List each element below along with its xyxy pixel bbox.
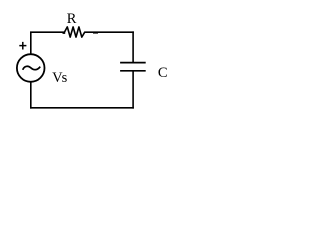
svg-text:Vs: Vs <box>52 70 68 86</box>
wire top right segment (resistor to top-right corner) <box>85 31 134 33</box>
resistor R <box>64 27 84 37</box>
capacitor C top plate <box>120 62 146 64</box>
svg-text:C: C <box>158 65 168 81</box>
wire joint at resistor right lead <box>93 32 98 34</box>
wire top-left vertical (source top to top-left corner) <box>30 32 32 54</box>
capacitor C bottom plate <box>120 70 146 72</box>
wire joint at resistor left lead <box>63 32 66 34</box>
voltage source Vs circle <box>17 54 45 82</box>
wire bottom-left vertical (source bottom to bottom wire) <box>30 81 32 109</box>
wire top left segment (corner to resistor) <box>30 31 64 33</box>
wire bottom <box>30 107 134 109</box>
sine wave inside source <box>23 66 41 70</box>
svg-text:R: R <box>67 11 77 27</box>
plus polarity sign <box>19 42 26 50</box>
wire right bottom (capacitor to bottom-right corner) <box>132 71 134 109</box>
wire right top (corner down to capacitor top plate) <box>132 31 134 62</box>
